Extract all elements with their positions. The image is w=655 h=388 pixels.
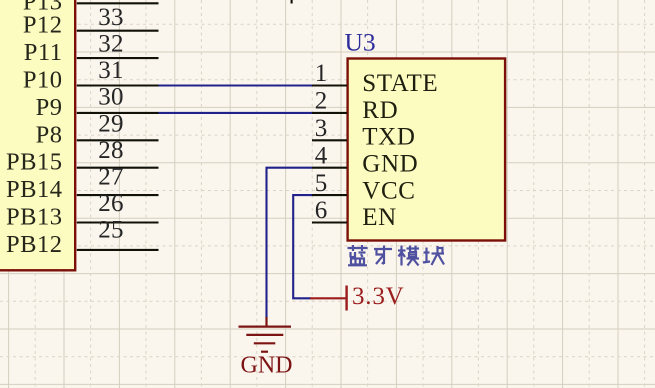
svg-text:EN: EN (362, 204, 397, 231)
svg-text:25: 25 (98, 217, 124, 244)
svg-text:U3: U3 (345, 28, 376, 57)
svg-text:1: 1 (315, 60, 328, 87)
svg-text:PB15: PB15 (6, 149, 62, 176)
svg-text:P9: P9 (36, 94, 63, 121)
svg-text:33: 33 (98, 4, 124, 31)
svg-text:3.3V: 3.3V (352, 283, 405, 310)
svg-text:30: 30 (98, 84, 124, 111)
svg-text:5: 5 (315, 170, 328, 197)
svg-text:VCC: VCC (362, 177, 415, 204)
svg-text:3: 3 (315, 115, 328, 142)
svg-text:28: 28 (98, 137, 124, 164)
svg-text:PB13: PB13 (6, 204, 62, 231)
svg-text:29: 29 (98, 110, 124, 137)
svg-text:2: 2 (315, 88, 328, 115)
svg-text:P12: P12 (23, 12, 63, 39)
svg-text:4: 4 (315, 142, 328, 169)
svg-text:6: 6 (315, 197, 328, 224)
svg-text:P8: P8 (36, 121, 63, 148)
svg-text:TXD: TXD (362, 124, 415, 151)
svg-text:32: 32 (98, 31, 124, 58)
svg-text:27: 27 (98, 164, 124, 191)
svg-text:RD: RD (362, 97, 398, 124)
svg-text:PB12: PB12 (6, 231, 62, 258)
svg-text:GND: GND (362, 151, 418, 178)
svg-text:31: 31 (98, 57, 124, 84)
svg-text:26: 26 (98, 190, 124, 217)
svg-text:STATE: STATE (362, 70, 438, 97)
svg-text:P10: P10 (23, 67, 63, 94)
svg-text:GND: GND (241, 353, 293, 379)
svg-text:P11: P11 (24, 39, 63, 66)
svg-text:PB14: PB14 (6, 176, 62, 203)
